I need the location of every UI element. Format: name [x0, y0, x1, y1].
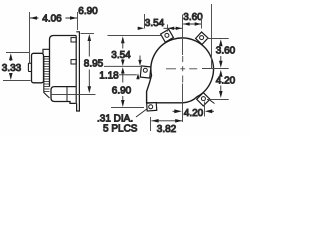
- svg-text:3.82: 3.82: [157, 124, 177, 135]
- svg-text:3.33: 3.33: [2, 63, 22, 74]
- dim 3.33 arrows and stems: [9, 53, 13, 80]
- dim 8.95 arrows and stems: [88, 34, 92, 93]
- dim 3.60 top: dimension line and arrows: [183, 23, 201, 25]
- left column: top hole extension line: [108, 35, 162, 37]
- side view: flange ear middle: [71, 60, 76, 64]
- svg-text:6.90: 6.90: [112, 85, 132, 96]
- dim 3.33 bottom extension line: [3, 80, 31, 82]
- hole left: [143, 68, 147, 72]
- dim 4.06 right extension line: [77, 12, 79, 30]
- centerline horizontal extension right: [202, 68, 229, 70]
- side view: bearing hub bump: [28, 63, 31, 71]
- side view: outlet box: [51, 87, 76, 104]
- dim 3.82: left extension tick: [150, 117, 152, 131]
- center mark: [166, 56, 197, 83]
- svg-text:3.60: 3.60: [183, 12, 203, 23]
- dim 3.60 top: right hole extension: [201, 17, 203, 29]
- centerline vertical extension down: [182, 84, 184, 123]
- side view: motor can: [32, 53, 44, 83]
- dim 6.90 mid: arrows and stems: [121, 67, 125, 107]
- dim 3.54 left: arrows and stems: [121, 36, 125, 66]
- front view: bottom-right corner stub: [209, 100, 215, 104]
- right column: bottom hole extension line: [207, 99, 229, 101]
- front view: tab bottom-left: [147, 103, 157, 111]
- hole bottom-left: [149, 105, 153, 109]
- centerline vertical extension up: [182, 15, 184, 56]
- svg-text:3.54: 3.54: [111, 50, 131, 61]
- dim 4.06 arrows: [30, 16, 77, 20]
- centerline horizontal extension left: [104, 65, 142, 67]
- bottom-left hole extension line: [111, 107, 144, 109]
- svg-text:1.18: 1.18: [99, 70, 119, 81]
- side view: vent slots hatching: [44, 59, 50, 92]
- dim 8.95 bottom extension line / outlet centerline: [51, 94, 96, 96]
- dim 1.18 leader: [119, 74, 137, 76]
- svg-text:3.60: 3.60: [216, 45, 236, 56]
- note leader line: [136, 109, 148, 118]
- front view: tab bottom-right: [197, 93, 210, 106]
- long extension line right of circle: [211, 4, 213, 69]
- dim 1.18 arrows at tab: [136, 60, 141, 79]
- svg-text:4.06: 4.06: [42, 13, 62, 24]
- side view: terminal block step: [43, 49, 50, 53]
- svg-text:5 PLCS: 5 PLCS: [103, 124, 138, 135]
- dim 8.95 top extension line: [81, 33, 95, 35]
- dim 3.54 top: dimension line and arrows: [164, 27, 183, 29]
- dim 3.60 right: arrows and stems: [219, 39, 223, 68]
- right column: top hole extension line: [207, 38, 229, 40]
- dim 3.54 top: hole extension tick: [167, 25, 169, 32]
- side view: mounting flange plate: [76, 32, 79, 111]
- dim 3.33 top extension line: [6, 52, 29, 54]
- front view: tab left: [140, 66, 151, 78]
- front view: housing outline: [147, 38, 214, 103]
- svg-text:6.90: 6.90: [78, 6, 98, 17]
- front view: tab top-right: [196, 32, 208, 44]
- dim 4.06 left extension line: [29, 12, 31, 63]
- dim 4.20 right: arrows and stems: [219, 70, 223, 98]
- dim 4.06 dimension line: [30, 17, 77, 19]
- svg-text:4.20: 4.20: [184, 108, 204, 119]
- side view: vent rib strip: [44, 57, 50, 98]
- dim 4.20 bottom: outside arrows: [174, 109, 212, 113]
- svg-text:8.95: 8.95: [84, 59, 104, 70]
- side view: flange ear top: [71, 38, 76, 42]
- dim 3.82: dimension line and arrows: [151, 120, 182, 122]
- dim 4.20 bottom: right hole extension: [204, 102, 206, 117]
- hole top-left: [165, 33, 169, 37]
- front view: tab top-left: [161, 29, 174, 42]
- svg-text:3.54: 3.54: [145, 18, 165, 29]
- hole top-right: [200, 36, 204, 40]
- dim 3.54 top: outside arrow left: [138, 27, 145, 30]
- side view: housing body: [50, 36, 77, 87]
- svg-text:4.20: 4.20: [216, 75, 236, 86]
- hole bottom-right: [201, 97, 205, 101]
- dim 3.54 top: left tick: [144, 14, 146, 29]
- side view: outlet box vertical divider: [66, 87, 68, 102]
